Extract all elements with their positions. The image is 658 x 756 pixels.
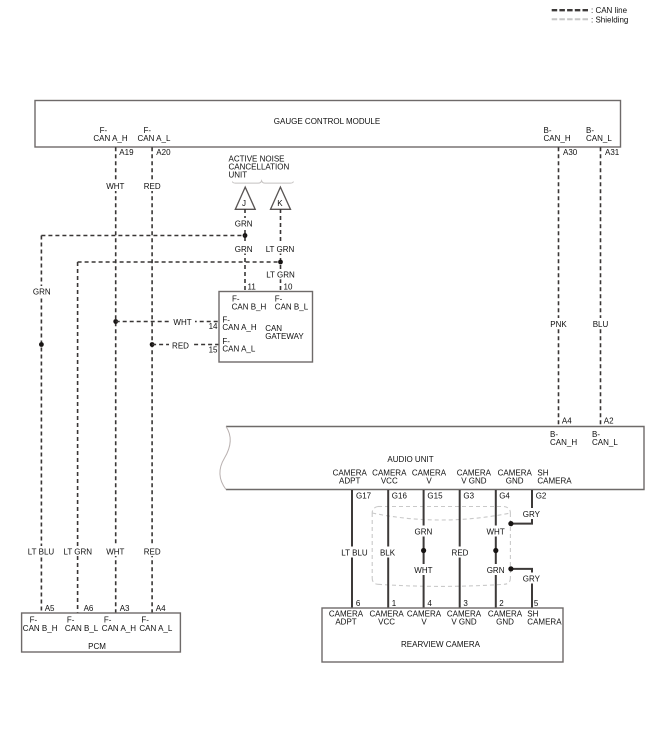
label LT BLU bbox=[27, 546, 57, 557]
wire F-CAN A_L RED (A20 to PCM A4) bbox=[151, 147, 153, 613]
svg-text:A30: A30 bbox=[563, 148, 578, 157]
svg-text:RED: RED bbox=[144, 548, 161, 557]
svg-text:CAN A_L: CAN A_L bbox=[222, 345, 255, 354]
label WHT (branch) bbox=[170, 316, 195, 327]
svg-text:CAMERA: CAMERA bbox=[537, 477, 572, 486]
svg-text:6: 6 bbox=[356, 599, 361, 608]
label GRN (camera GND) bbox=[483, 564, 508, 575]
shield drain wire top GRY bbox=[508, 490, 543, 526]
rearview camera box bbox=[322, 608, 563, 662]
svg-text:G16: G16 bbox=[392, 492, 408, 501]
splice camera V bbox=[421, 548, 426, 553]
camera wire CAMERA V GND RED bbox=[459, 490, 461, 608]
svg-text:VCC: VCC bbox=[378, 618, 395, 627]
svg-text:V: V bbox=[421, 618, 427, 627]
shield outline bbox=[372, 507, 510, 587]
label WHT (left wire bottom) bbox=[104, 546, 127, 557]
svg-text:CAN B_H: CAN B_H bbox=[23, 624, 58, 633]
connector triangle K bbox=[271, 187, 291, 209]
wire K to gateway pin 10 bbox=[280, 209, 282, 292]
gauge control module box bbox=[35, 101, 621, 148]
junction RED branch bbox=[150, 342, 155, 347]
label RED (camera) bbox=[448, 547, 472, 558]
svg-text:A4: A4 bbox=[156, 604, 166, 613]
camera wire CAMERA VCC BLK bbox=[387, 490, 389, 608]
wire B-CAN_H PNK (A30 to audio A4) bbox=[558, 147, 560, 426]
label LT GRN (left wire) bbox=[62, 546, 94, 557]
legend Shielding sample bbox=[552, 18, 589, 20]
audio pin label CAMERA GND bbox=[498, 469, 533, 486]
svg-text:RED: RED bbox=[144, 182, 161, 191]
svg-text:ADPT: ADPT bbox=[335, 618, 356, 627]
wire RED branch to gateway pin 15 bbox=[152, 344, 219, 346]
svg-text:G15: G15 bbox=[427, 492, 443, 501]
label WHT (camera GND) bbox=[483, 526, 508, 537]
gateway pin label F-CAN B_H bbox=[232, 295, 267, 312]
wire B-CAN_L BLU (A31 to audio A2) bbox=[600, 147, 602, 426]
svg-text:GRN: GRN bbox=[235, 219, 253, 228]
label GRN (lower) bbox=[233, 244, 257, 254]
svg-text:GRN: GRN bbox=[487, 566, 505, 575]
svg-text:14: 14 bbox=[209, 322, 218, 331]
gateway name bbox=[265, 324, 304, 341]
pcm pin label F-CAN A_L bbox=[139, 616, 172, 634]
label BLK bbox=[376, 547, 399, 558]
svg-text:GRY: GRY bbox=[523, 510, 541, 519]
svg-text:CAN_L: CAN_L bbox=[586, 134, 612, 143]
svg-text:LT GRN: LT GRN bbox=[63, 548, 92, 557]
gauge pin label B-CAN_H bbox=[544, 126, 571, 143]
splice GRN/LT BLU bbox=[39, 342, 44, 347]
splice camera GND bbox=[493, 548, 498, 553]
bracket over triangles bbox=[232, 181, 293, 183]
svg-text:3: 3 bbox=[463, 599, 468, 608]
svg-text:WHT: WHT bbox=[106, 548, 124, 557]
svg-text:CAMERA: CAMERA bbox=[527, 618, 562, 627]
svg-text:V GND: V GND bbox=[461, 477, 487, 486]
audio pin label CAMERA V bbox=[412, 469, 447, 486]
svg-text:G4: G4 bbox=[499, 492, 510, 501]
label RED (left wire bottom) bbox=[141, 546, 163, 557]
gateway pin label F-CAN A_H bbox=[222, 316, 256, 333]
svg-text:A6: A6 bbox=[84, 604, 94, 613]
svg-text:CAN_H: CAN_H bbox=[544, 134, 571, 143]
svg-text:CAN_L: CAN_L bbox=[592, 438, 618, 447]
svg-text:A20: A20 bbox=[156, 148, 171, 157]
svg-text:CAN A_H: CAN A_H bbox=[222, 323, 256, 332]
svg-text:GATEWAY: GATEWAY bbox=[265, 332, 304, 341]
svg-text:V: V bbox=[426, 477, 432, 486]
svg-text:1: 1 bbox=[392, 599, 397, 608]
svg-text:WHT: WHT bbox=[414, 566, 432, 575]
wire J to gateway pin 11 bbox=[244, 209, 246, 292]
camera pin label CAMERA ADPT bbox=[329, 610, 364, 627]
svg-text:LT BLU: LT BLU bbox=[341, 549, 368, 558]
svg-text:A3: A3 bbox=[120, 604, 130, 613]
audio pin label B-CAN_L bbox=[592, 430, 618, 447]
svg-text:10: 10 bbox=[284, 283, 293, 292]
svg-text:GND: GND bbox=[496, 618, 514, 627]
svg-text:GAUGE CONTROL MODULE: GAUGE CONTROL MODULE bbox=[274, 117, 380, 126]
wire F-CAN A_H WHT (A19 to PCM A3) bbox=[115, 147, 117, 613]
gateway pin label F-CAN B_L bbox=[275, 295, 309, 312]
svg-text:A31: A31 bbox=[605, 148, 620, 157]
label GRN (upper) bbox=[233, 218, 257, 228]
label GRN (camera V) bbox=[411, 526, 436, 537]
svg-text:WHT: WHT bbox=[106, 182, 124, 191]
junction LT GRN bbox=[278, 260, 283, 265]
svg-text:UNIT: UNIT bbox=[229, 170, 248, 179]
svg-text:WHT: WHT bbox=[486, 528, 504, 537]
audio unit box bbox=[220, 427, 644, 490]
svg-text:LT BLU: LT BLU bbox=[28, 548, 55, 557]
svg-text:G17: G17 bbox=[356, 492, 372, 501]
svg-text:K: K bbox=[277, 199, 283, 208]
audio pin label CAMERA V GND bbox=[457, 469, 492, 486]
CAN gateway box U1 bbox=[219, 292, 313, 363]
svg-text:11: 11 bbox=[248, 283, 257, 292]
svg-text:GRY: GRY bbox=[523, 575, 541, 584]
label GRN (left wire) bbox=[30, 286, 54, 297]
svg-text:PCM: PCM bbox=[88, 642, 106, 651]
svg-text:LT GRN: LT GRN bbox=[266, 245, 295, 254]
svg-text:CAN A_H: CAN A_H bbox=[102, 624, 136, 633]
connector triangle J bbox=[235, 187, 255, 209]
svg-text:G3: G3 bbox=[463, 492, 474, 501]
wire GRN horizontal to left bbox=[41, 235, 245, 237]
wire WHT branch to gateway pin 14 bbox=[116, 321, 219, 323]
label RED bbox=[141, 181, 163, 191]
svg-text:CAN A_L: CAN A_L bbox=[138, 134, 171, 143]
gauge pin label F-CAN A_H bbox=[93, 126, 127, 143]
camera pin label CAMERA V GND bbox=[447, 610, 482, 627]
junction GRN bbox=[243, 233, 248, 238]
svg-text:A19: A19 bbox=[119, 148, 134, 157]
active noise cancellation unit label bbox=[229, 155, 290, 180]
svg-text:A2: A2 bbox=[604, 417, 614, 426]
svg-text:AUDIO UNIT: AUDIO UNIT bbox=[387, 455, 433, 464]
svg-text:15: 15 bbox=[209, 346, 218, 355]
camera wire CAMERA GND WHT/GRN bbox=[495, 490, 497, 608]
junction WHT branch bbox=[113, 319, 118, 324]
wire GRN/LT BLU vertical (to PCM A5) bbox=[40, 236, 42, 614]
legend CAN line sample bbox=[552, 9, 589, 11]
svg-text:VCC: VCC bbox=[381, 477, 398, 486]
svg-text:GND: GND bbox=[506, 477, 524, 486]
label LT GRN (lower) bbox=[264, 269, 297, 279]
label PNK bbox=[547, 318, 570, 329]
svg-text:WHT: WHT bbox=[173, 318, 191, 327]
gauge pin label F-CAN A_L bbox=[138, 126, 171, 143]
svg-text:GRN: GRN bbox=[235, 245, 253, 254]
svg-text:CAN A_H: CAN A_H bbox=[93, 134, 127, 143]
svg-text:PNK: PNK bbox=[550, 320, 567, 329]
svg-text:A4: A4 bbox=[562, 417, 572, 426]
label BLU bbox=[589, 318, 612, 329]
svg-text:V GND: V GND bbox=[451, 618, 477, 627]
camera pin label CAMERA VCC bbox=[369, 610, 404, 627]
camera wire CAMERA ADPT LT BLU bbox=[351, 490, 353, 608]
label WHT (camera V) bbox=[411, 564, 436, 575]
svg-text:GRN: GRN bbox=[415, 528, 433, 537]
pcm pin label F-CAN A_H bbox=[102, 616, 136, 634]
svg-text:CAN B_H: CAN B_H bbox=[232, 303, 267, 312]
svg-text:CAN B_L: CAN B_L bbox=[275, 303, 309, 312]
wire LT GRN vertical (to PCM A6) bbox=[77, 262, 79, 613]
svg-text:J: J bbox=[242, 199, 246, 208]
wire LT GRN horizontal to left bbox=[78, 261, 281, 263]
camera pin label CAMERA V bbox=[407, 610, 442, 627]
svg-text:A5: A5 bbox=[45, 604, 55, 613]
svg-text:ADPT: ADPT bbox=[339, 477, 360, 486]
svg-text:BLK: BLK bbox=[380, 549, 396, 558]
shield drain wire bottom GRY to pin 5 bbox=[508, 566, 543, 608]
svg-text:LT GRN: LT GRN bbox=[266, 271, 295, 280]
svg-text:4: 4 bbox=[427, 599, 432, 608]
svg-text:2: 2 bbox=[499, 599, 504, 608]
svg-text:GRN: GRN bbox=[33, 288, 51, 297]
audio pin label SH CAMERA bbox=[537, 469, 572, 486]
audio pin label B-CAN_H bbox=[550, 430, 577, 447]
pcm pin label F-CAN B_L bbox=[65, 616, 99, 634]
label WHT bbox=[104, 181, 127, 191]
svg-text:CAN_H: CAN_H bbox=[550, 438, 577, 447]
PCM box bbox=[22, 613, 181, 652]
audio pin label CAMERA ADPT bbox=[333, 469, 368, 486]
camera pin label CAMERA GND bbox=[488, 610, 523, 627]
gauge pin label B-CAN_L bbox=[586, 126, 612, 143]
gateway pin label F-CAN A_L bbox=[222, 337, 255, 354]
svg-text:CAN A_L: CAN A_L bbox=[139, 624, 172, 633]
svg-text:CAN B_L: CAN B_L bbox=[65, 624, 99, 633]
svg-text:: CAN line: : CAN line bbox=[591, 6, 628, 15]
svg-text:RED: RED bbox=[172, 342, 189, 351]
svg-text:RED: RED bbox=[452, 549, 469, 558]
label LT BLU bbox=[339, 547, 370, 558]
camera pin label SH CAMERA bbox=[527, 610, 562, 627]
audio pin label CAMERA VCC bbox=[372, 469, 407, 486]
svg-text:REARVIEW CAMERA: REARVIEW CAMERA bbox=[401, 640, 481, 649]
camera wire CAMERA V GRN/WHT bbox=[423, 490, 425, 608]
svg-text:: Shielding: : Shielding bbox=[591, 15, 628, 24]
pcm pin label F-CAN B_H bbox=[23, 616, 58, 634]
label RED (branch) bbox=[169, 339, 193, 351]
label LT GRN (upper) bbox=[264, 244, 297, 254]
svg-text:G2: G2 bbox=[536, 492, 547, 501]
svg-text:5: 5 bbox=[534, 599, 539, 608]
svg-text:BLU: BLU bbox=[593, 320, 609, 329]
